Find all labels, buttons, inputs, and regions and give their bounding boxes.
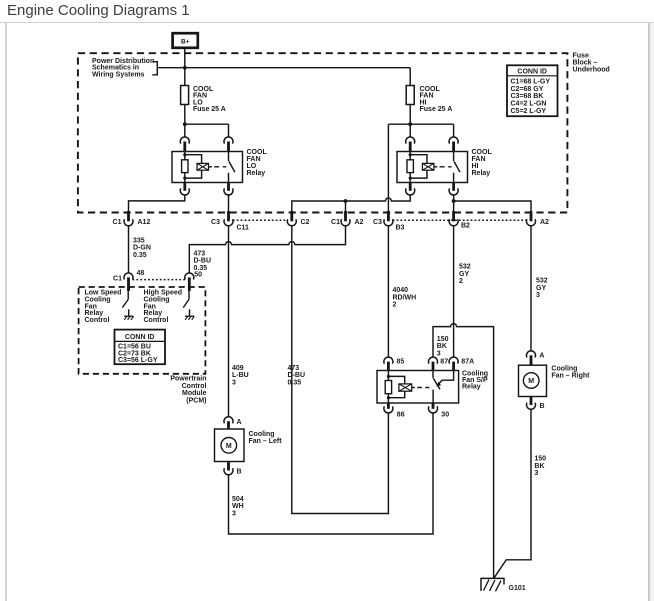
svg-text:CONN ID: CONN ID [517, 69, 547, 76]
svg-text:D-BU: D-BU [288, 372, 306, 379]
svg-text:C2=68 GY: C2=68 GY [511, 86, 544, 93]
svg-text:Module: Module [182, 390, 207, 397]
svg-text:C11: C11 [237, 224, 250, 231]
svg-text:B: B [237, 468, 242, 475]
svg-text:B3: B3 [396, 224, 405, 231]
svg-text:50: 50 [194, 272, 202, 279]
svg-text:335: 335 [133, 237, 145, 244]
svg-text:C3: C3 [373, 219, 382, 226]
svg-text:A12: A12 [138, 219, 151, 226]
svg-text:30: 30 [441, 411, 449, 418]
svg-text:A2: A2 [540, 219, 549, 226]
svg-text:2: 2 [459, 278, 463, 285]
svg-text:150: 150 [437, 336, 449, 343]
svg-text:Wiring Systems: Wiring Systems [92, 71, 145, 78]
svg-text:BK: BK [534, 463, 544, 470]
svg-text:473: 473 [194, 250, 206, 257]
svg-text:3: 3 [232, 510, 236, 517]
svg-text:CONN ID: CONN ID [125, 334, 155, 341]
svg-text:M: M [226, 443, 232, 450]
svg-text:3: 3 [232, 379, 236, 386]
svg-text:Control: Control [144, 317, 169, 324]
svg-text:473: 473 [288, 365, 300, 372]
svg-text:4040: 4040 [393, 287, 409, 294]
svg-text:0.35: 0.35 [133, 252, 147, 259]
svg-text:Fan – Right: Fan – Right [551, 372, 590, 379]
svg-text:C1: C1 [331, 219, 340, 226]
svg-text:GY: GY [459, 271, 469, 278]
svg-text:C1: C1 [113, 275, 122, 282]
svg-text:(PCM): (PCM) [186, 397, 206, 404]
svg-text:532: 532 [459, 264, 471, 271]
svg-text:48: 48 [137, 270, 145, 277]
svg-text:C3: C3 [211, 219, 220, 226]
svg-text:Control: Control [182, 383, 207, 390]
svg-text:Control: Control [85, 317, 110, 324]
svg-text:3: 3 [536, 292, 540, 299]
svg-text:86: 86 [397, 411, 405, 418]
svg-text:B2: B2 [461, 223, 470, 230]
svg-text:Fuse: Fuse [573, 53, 589, 60]
svg-text:85: 85 [397, 359, 405, 366]
svg-text:Powertrain: Powertrain [170, 376, 206, 383]
svg-text:Relay: Relay [462, 384, 481, 391]
svg-text:C4=2 L-GN: C4=2 L-GN [511, 101, 547, 108]
svg-text:B: B [540, 403, 545, 410]
svg-text:409: 409 [232, 365, 244, 372]
svg-text:D-GN: D-GN [133, 245, 151, 252]
svg-text:Fuse 25 A: Fuse 25 A [420, 106, 453, 113]
svg-text:532: 532 [536, 278, 548, 285]
svg-text:87A: 87A [461, 359, 474, 366]
svg-text:A: A [539, 353, 544, 360]
svg-text:C1=68 L-GY: C1=68 L-GY [511, 79, 551, 86]
svg-text:BK: BK [437, 343, 447, 350]
svg-text:Relay: Relay [472, 170, 491, 177]
svg-text:WH: WH [232, 503, 244, 510]
svg-text:L-BU: L-BU [232, 372, 249, 379]
svg-text:Cooling: Cooling [249, 431, 275, 438]
svg-text:3: 3 [437, 350, 441, 357]
svg-text:Relay: Relay [247, 170, 266, 177]
svg-text:Fuse 25 A: Fuse 25 A [193, 106, 226, 113]
svg-text:0.35: 0.35 [288, 379, 302, 386]
svg-text:Fan – Left: Fan – Left [249, 438, 283, 445]
svg-text:C1: C1 [113, 219, 122, 226]
svg-text:87: 87 [440, 359, 448, 366]
svg-text:2: 2 [393, 302, 397, 309]
svg-text:M: M [528, 378, 534, 385]
svg-text:150: 150 [534, 456, 546, 463]
svg-text:C2: C2 [301, 219, 310, 226]
svg-text:G101: G101 [509, 585, 526, 592]
svg-text:C3=56 L-GY: C3=56 L-GY [118, 357, 158, 364]
svg-text:GY: GY [536, 285, 546, 292]
svg-text:D-BU: D-BU [194, 258, 212, 265]
svg-text:3: 3 [534, 470, 538, 477]
svg-text:RD/WH: RD/WH [393, 294, 417, 301]
svg-text:Cooling: Cooling [551, 365, 577, 372]
svg-text:Block –: Block – [573, 60, 598, 67]
svg-text:504: 504 [232, 496, 244, 503]
svg-text:C5=2 L-GY: C5=2 L-GY [511, 108, 547, 115]
svg-text:A: A [237, 419, 242, 426]
svg-text:Underhood: Underhood [573, 67, 610, 74]
svg-text:A2: A2 [355, 219, 364, 226]
svg-text:B+: B+ [181, 38, 190, 45]
svg-text:C3=68 BK: C3=68 BK [511, 93, 544, 100]
